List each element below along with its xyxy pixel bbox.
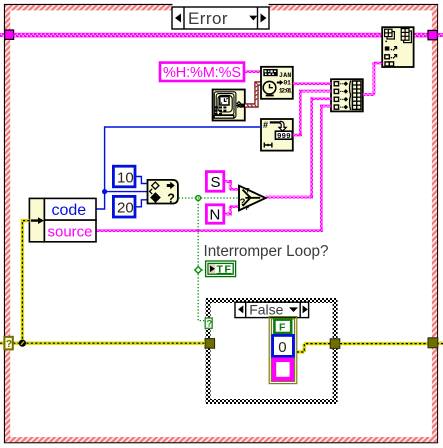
- svg-text:?: ?: [6, 338, 12, 350]
- svg-text:?: ?: [240, 197, 246, 208]
- tunnel (right border, cluster out): [428, 30, 437, 39]
- tunnel (left border, cluster in): [0, 33, 6, 37]
- svg-text:Interromper Loop?: Interromper Loop?: [204, 243, 329, 260]
- wire: top cluster wire to bundle node: [14, 33, 383, 38]
- string constant S: [206, 172, 223, 192]
- boolean constant TF: [206, 261, 236, 277]
- svg-text:False: False: [249, 302, 283, 318]
- svg-text:N: N: [210, 207, 221, 224]
- select node (triangle): [239, 186, 266, 212]
- wire: boolean down to inner case selector (green dotted): [198, 201, 205, 321]
- wire: Select out to concat in 3 (string): [266, 196, 314, 199]
- inner case selector label "False": [235, 302, 309, 318]
- tunnel (inner case right, error out): [330, 339, 340, 349]
- bundle node U1 (error cluster bundler, top right): [382, 27, 413, 67]
- wire: source to concat in 4 (string): [96, 229, 323, 232]
- wire: #999 out to concat in 2 (string): [293, 134, 302, 137]
- junction (boolean wire): [196, 196, 201, 201]
- In Range and Coerce node: [148, 180, 178, 206]
- wire: concat out to bundle node (string): [363, 93, 375, 96]
- Format Date/Time String node: [261, 67, 293, 99]
- wire: boolean in-range? to select s (green dotted): [179, 197, 238, 199]
- case selector terminal [?] on outer left border: [4, 337, 12, 350]
- Concatenate Strings node: [331, 79, 363, 111]
- wire: inner tunnel to outer right tunnel (yellow dashed): [340, 342, 443, 346]
- svg-text:JAN: JAN: [279, 72, 291, 79]
- junction diamond at TF branch: [195, 267, 202, 274]
- svg-text:Error: Error: [188, 9, 228, 28]
- svg-text:source: source: [48, 223, 93, 240]
- wire: S to select (string): [224, 180, 232, 183]
- svg-text:code: code: [52, 202, 87, 219]
- junction (error wire): [19, 340, 26, 347]
- svg-text:S: S: [211, 174, 221, 191]
- inner case structure (False case) border: [206, 298, 338, 404]
- wire: N to select (string): [224, 213, 232, 216]
- wire: error cluster to inner right tunnel (yellow dashed): [297, 344, 331, 352]
- svg-text:%H:%M:%S: %H:%M:%S: [163, 65, 241, 81]
- svg-text:?: ?: [206, 318, 212, 329]
- wire: bundle out to right tunnel: [414, 33, 429, 38]
- svg-text:12:01: 12:01: [279, 87, 292, 94]
- string constant "%H:%M:%S": [160, 63, 244, 81]
- svg-text:T: T: [246, 187, 250, 194]
- junction (blue wire): [102, 189, 107, 194]
- svg-text:?: ?: [167, 192, 175, 206]
- tunnel (outer right border, error out): [428, 338, 438, 348]
- wire: TF stub (green dotted): [202, 269, 206, 271]
- error cluster constant (status/code/source) inside False case: [269, 317, 297, 384]
- numeric constant 20: [113, 196, 135, 217]
- wire: blue numeric wires: [96, 127, 261, 209]
- svg-text:999: 999: [277, 133, 291, 141]
- svg-text:#: #: [263, 120, 268, 130]
- unbundle by name node (code/source): [29, 198, 96, 241]
- Get Date/Time In Seconds node: [213, 90, 245, 121]
- wire: format string to Format Date/Time: [244, 70, 261, 73]
- string constant N: [206, 205, 223, 224]
- inner case selector terminal [?]: [205, 318, 212, 329]
- svg-text:01: 01: [283, 80, 291, 87]
- svg-text:20: 20: [117, 200, 134, 217]
- wire: error main horizontal + branch up to unbundle (yellow dashed): [0, 221, 205, 344]
- numeric constant 10: [113, 166, 135, 187]
- svg-text:F: F: [279, 321, 286, 333]
- wire: timestamp (brown) Get Date/Time to Format Date/Time: [245, 83, 261, 107]
- case selector label "Error": [172, 7, 269, 29]
- tunnel (inner case left, error in): [205, 339, 215, 349]
- svg-text:10: 10: [117, 170, 134, 187]
- Number To Fractional String node (#→999): [261, 119, 293, 151]
- svg-text:F: F: [246, 205, 250, 212]
- wire: Format Date/Time out to concat in 1 (string): [293, 82, 332, 85]
- svg-text:0: 0: [278, 339, 286, 356]
